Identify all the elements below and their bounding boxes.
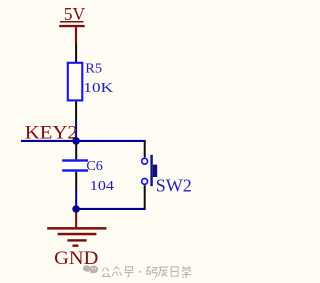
svg-text:C6: C6: [86, 158, 102, 173]
resistor R5: [68, 61, 113, 101]
junction: bottom node: [72, 205, 80, 213]
dot: [139, 271, 141, 273]
power port GND: [47, 212, 106, 269]
wire: node KEY2 horizontal rail: [21, 140, 146, 142]
svg-text:10K: 10K: [83, 80, 113, 95]
hao: [126, 267, 133, 271]
svg-text:GND: GND: [54, 248, 98, 269]
power port 5V: [59, 4, 85, 44]
switch SW2: [142, 141, 192, 208]
svg-text:R5: R5: [85, 61, 102, 76]
junction: node KEY2: [72, 137, 80, 145]
svg-text:5V: 5V: [64, 4, 85, 24]
wire: vertical to bottom node (blue): [75, 190, 77, 209]
gong: [102, 268, 110, 277]
svg-text:104: 104: [90, 178, 114, 193]
wire: vertical to node KEY2 (blue): [75, 121, 77, 141]
zhong: [112, 267, 122, 277]
svg-text:SW2: SW2: [156, 176, 192, 196]
nong: [158, 267, 168, 276]
wire: resistor bottom pin (black): [75, 101, 77, 121]
sheet background: [0, 0, 204, 283]
capacitor C6: [62, 158, 114, 193]
wire: bottom horizontal rail: [75, 208, 146, 210]
capacitor C6 bottom pin (black): [75, 172, 77, 190]
ri: [171, 267, 178, 276]
watermark icon (chat bubbles): [83, 265, 98, 274]
capacitor C6 top pin (black): [75, 145, 77, 160]
wire: resistor top pin (black): [75, 44, 77, 63]
ma1: [147, 267, 151, 274]
chang: [182, 266, 191, 278]
watermark text (stylized CJK strokes): [102, 266, 191, 278]
